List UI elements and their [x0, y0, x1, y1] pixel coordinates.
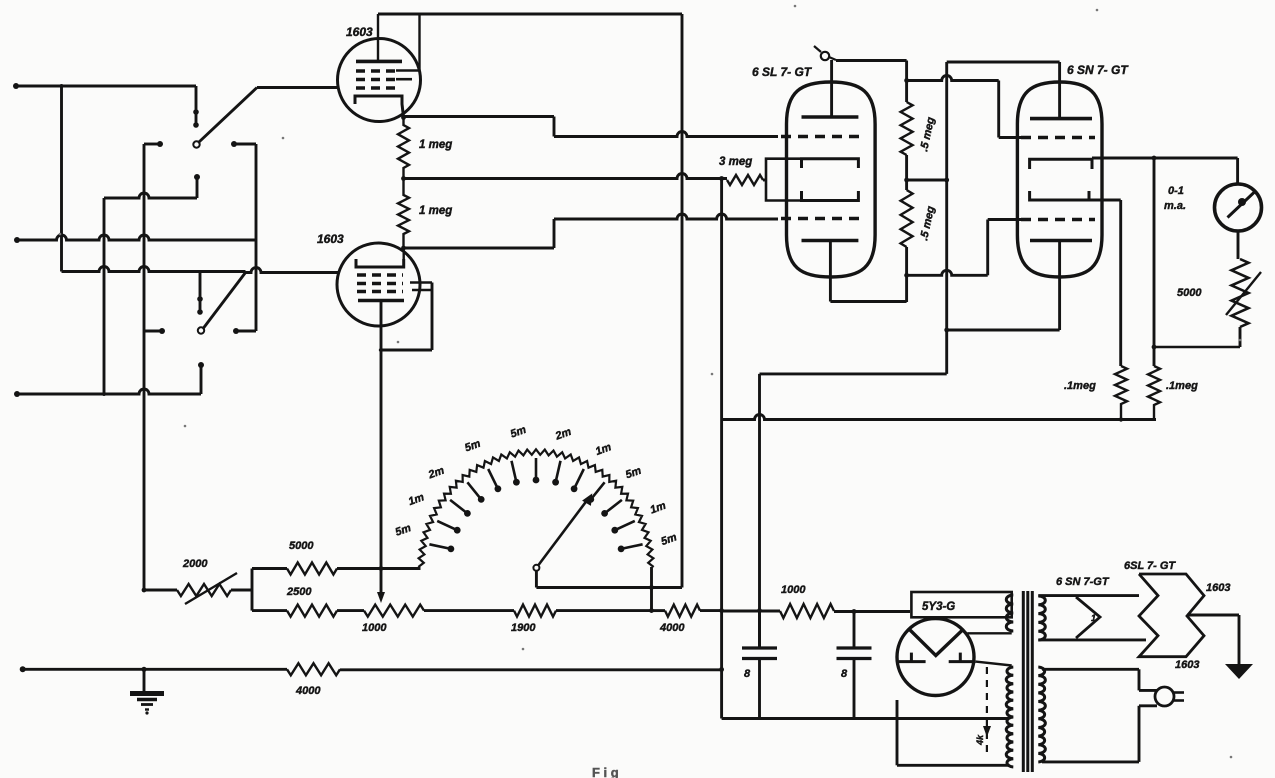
wire S2 arm output to V2 grid	[246, 268, 339, 273]
switch S2 right contact	[233, 328, 239, 334]
wire B+ bus (y=611)	[722, 610, 780, 613]
wire S1 arm to V1 grid	[257, 86, 338, 89]
svg-text:5000: 5000	[1177, 287, 1202, 299]
paper specks	[794, 5, 797, 8]
wire heater top rail	[1038, 594, 1139, 597]
wire R1/R2 junction to 3meg	[401, 176, 406, 181]
wire meter to 5000	[1237, 231, 1240, 259]
svg-text:1000: 1000	[781, 584, 806, 596]
dial wiper pivot	[533, 565, 539, 571]
wire heater bottom rail	[1038, 638, 1146, 641]
svg-text:2000: 2000	[182, 558, 208, 570]
wire V1 cathode to 6SL7 grid1	[401, 115, 406, 120]
svg-text:1000: 1000	[362, 622, 387, 634]
wire 3meg to cathode bracket	[763, 179, 766, 182]
switch S2 throw stub	[199, 272, 202, 314]
heater 6SL7 zigzag	[1139, 574, 1204, 657]
switch S1 left contact	[157, 141, 163, 147]
dial wiper arm	[539, 499, 589, 565]
svg-text:6SL 7- GT: 6SL 7- GT	[1124, 560, 1176, 572]
wire 6SL7 plate to .5meg2	[830, 300, 906, 303]
svg-text:2500: 2500	[286, 586, 312, 598]
wire ground rail right	[340, 668, 722, 671]
switch S1 lower contact	[194, 174, 200, 180]
resistor chain dial arc	[418, 449, 653, 567]
svg-text:1603: 1603	[346, 25, 373, 39]
wire vertical bus B (x=256)	[255, 144, 258, 331]
wire PSU bottom rail	[722, 717, 1008, 720]
transformer primary winding upper	[1006, 595, 1013, 631]
svg-text:6 SL 7- GT: 6 SL 7- GT	[752, 65, 813, 79]
wire 1000 to 5Y3	[834, 610, 910, 613]
AC plug	[1155, 687, 1174, 706]
rheostat 2000	[142, 588, 147, 593]
tube U2 (6SN7-GT)	[1017, 82, 1102, 277]
svg-text:1603: 1603	[1206, 582, 1230, 594]
svg-text:1900: 1900	[511, 622, 536, 634]
resistor R3 3 meg	[727, 175, 763, 185]
wire 6SN7 lower cathode down	[1089, 199, 1121, 202]
wire J2 to bus B	[17, 235, 256, 240]
switch S2 lower contact	[198, 362, 204, 368]
wire .5meg junction to bus H	[907, 179, 947, 182]
input terminal J1	[13, 83, 19, 89]
wire .5meg top lead	[905, 61, 908, 103]
wire .1meg bottom bus (y=419.5)	[722, 415, 1156, 420]
transformer primary winding lower	[1006, 667, 1013, 767]
svg-text:5000: 5000	[289, 540, 314, 552]
resistor 1900	[514, 605, 556, 617]
chassis ground arrow	[1225, 664, 1253, 679]
svg-text:8: 8	[841, 668, 848, 680]
wire dial arc right end down	[650, 567, 653, 611]
capacitor C2 8	[853, 612, 856, 649]
wire S1 lower contact to bus C	[104, 193, 197, 198]
label 5Y3-G box	[911, 592, 1011, 617]
heater 6SN7 chevron	[1076, 597, 1100, 638]
svg-text:6 SN 7-GT: 6 SN 7-GT	[1056, 576, 1110, 588]
transformer secondary winding upper	[1038, 596, 1045, 640]
resistor R4 .5 meg	[901, 102, 913, 155]
wire vertical bus F (x=721.6)	[720, 179, 723, 719]
wire switch S1 throw stub	[195, 86, 198, 126]
svg-text:4k: 4k	[975, 734, 985, 746]
wire J1 to switch S1	[16, 85, 196, 88]
input terminal J3	[14, 391, 20, 397]
svg-text:1603: 1603	[1175, 659, 1199, 671]
resistor R2 1 meg	[398, 178, 409, 248]
dial tap spokes	[429, 544, 451, 549]
svg-text:.1meg: .1meg	[1064, 380, 1096, 392]
switch S2 left contact	[159, 328, 165, 334]
wire 6SN7 lower plate down	[1058, 241, 1061, 331]
pot 1000 wiper arrow	[380, 569, 383, 593]
pot 1000	[364, 605, 424, 617]
svg-text:6 SN 7- GT: 6 SN 7- GT	[1067, 63, 1129, 77]
5Y3 right plate	[949, 660, 976, 663]
svg-text:m.a.: m.a.	[1164, 200, 1186, 212]
wire grid1 feed riser	[907, 76, 999, 81]
tube V1 (1603)	[338, 39, 421, 122]
svg-text:4000: 4000	[659, 622, 685, 634]
rheostat 5000	[1232, 259, 1249, 327]
ground rail	[20, 666, 26, 672]
capacitor C1 8	[758, 611, 761, 648]
wire grid2 feed riser	[907, 270, 988, 275]
svg-text:5Y3-G: 5Y3-G	[922, 601, 955, 613]
svg-text:3 meg: 3 meg	[719, 156, 752, 168]
wire pivot to bus E	[535, 571, 538, 588]
resistor R6 .1 meg	[1115, 366, 1127, 419]
wire vertical bus E (x=682)	[681, 14, 684, 588]
resistor 4000 (supply)	[652, 609, 666, 612]
wire heater to chassis ground	[1187, 614, 1239, 617]
svg-text:.1meg: .1meg	[1166, 380, 1198, 392]
input terminal J2	[14, 237, 20, 243]
resistor 2500	[252, 609, 287, 612]
resistor 1000 (PSU)	[780, 604, 834, 618]
wire V1 plate top rail	[378, 13, 682, 16]
resistor 5000 (divider)	[252, 567, 287, 570]
wire vertical bus D (x=144)	[143, 144, 146, 590]
resistor R7 .1 meg	[1148, 366, 1160, 419]
svg-text:1603: 1603	[317, 232, 344, 246]
svg-text:F i g: F i g	[592, 765, 619, 778]
ground symbol	[143, 669, 146, 692]
wire 6SN7 plate top	[947, 61, 1060, 64]
wire 5000 to .1meg bus	[1239, 327, 1242, 347]
transformer core	[1022, 591, 1025, 772]
wire plug loop top	[1042, 668, 1139, 671]
wire vertical bus C (x=104)	[103, 198, 106, 394]
wire vertical .1megB lead	[1153, 158, 1156, 366]
wire 6SL7 lower plate down	[829, 241, 832, 302]
wire vertical bus H (x=946.7)	[945, 62, 948, 374]
wire heater return loop	[896, 719, 899, 766]
svg-text:8: 8	[744, 668, 751, 680]
svg-text:4000: 4000	[295, 685, 321, 697]
transformer secondary winding lower	[1038, 667, 1045, 762]
switch S2 arm	[204, 273, 246, 329]
resistor 4000 (ground)	[287, 663, 340, 675]
svg-text:0-1: 0-1	[1168, 185, 1184, 197]
svg-text:1: 1	[1091, 613, 1096, 623]
5Y3 left plate	[899, 660, 926, 663]
wire V2 plate to 6SL7 grid2	[401, 246, 406, 251]
wire bus A to switch S2	[62, 267, 246, 272]
wire 5Y3 plate to transformer	[976, 662, 1012, 666]
wire vertical bus G (x=759.5)	[758, 374, 761, 648]
tube U3 (5Y3-G)	[897, 619, 974, 696]
wire vertical bus A (x=61.5)	[60, 86, 63, 272]
switch S1 arm	[199, 88, 257, 143]
resistor R5 .5 meg	[901, 190, 913, 247]
wire plug loop bottom	[1139, 704, 1157, 707]
5Y3 filament	[910, 630, 963, 656]
wire 6SL7 cap to .5megs	[829, 57, 836, 60]
wire 6SN7 upper cathode to meter	[1092, 157, 1238, 160]
wire 6SN7 plate bus (y=374)	[760, 372, 947, 375]
switch S1 pole	[193, 141, 199, 147]
wire between .5megs	[905, 155, 908, 190]
wire branch bracket	[251, 569, 254, 611]
tube U1 (6SL7-GT)	[787, 82, 876, 277]
wire 5Y3 HV loop	[967, 632, 1011, 634]
wire .5meg2 bottom	[905, 247, 908, 302]
switch S2 pole	[198, 327, 204, 333]
wire pot to 1900	[424, 609, 514, 612]
tube V2 (1603)	[337, 243, 420, 326]
svg-text:1 meg: 1 meg	[419, 205, 452, 217]
wire V2 cathode down to dial	[380, 301, 383, 569]
meter M 0-1 m.a.	[1215, 184, 1262, 231]
HV annotation dashed arrow	[986, 667, 988, 757]
switch S1 right contact	[231, 141, 237, 147]
wire 5Y3 bottom to rail	[896, 700, 899, 719]
wire 1900 to junction	[556, 609, 652, 612]
resistor R1 1 meg	[398, 117, 409, 178]
svg-text:1 meg: 1 meg	[419, 139, 452, 151]
wire J3 to S2 lower contact	[17, 389, 201, 394]
